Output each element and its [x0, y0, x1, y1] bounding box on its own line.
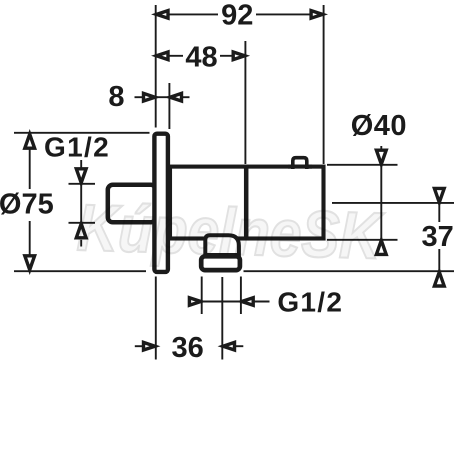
flange bottom reference line right (37 bottom): [244, 270, 454, 272]
inlet tick bottom: [69, 222, 96, 224]
arrow 36 left (pointing right at flange face line): [144, 342, 156, 350]
svg-text:37: 37: [421, 221, 453, 253]
dimension 48 line: [157, 55, 183, 57]
inlet pipe (wall connection): [108, 185, 156, 223]
inlet G1/2 dimension: up arrow: [76, 224, 86, 238]
Ø40 top extension line: [327, 164, 398, 166]
extension line right of 8 (x=169.4): [168, 83, 170, 129]
arrow 8 right (outside pointing left): [170, 93, 182, 101]
svg-text:Ø75: Ø75: [0, 189, 54, 221]
extension below: outlet right (G1/2): [240, 277, 242, 315]
inlet G1/2 dimension: down arrow: [80, 160, 82, 168]
Ø40 dimension line: [380, 146, 382, 256]
extension line for 92 right (x=323.6): [323, 5, 325, 164]
Ø75 dimension line: [29, 134, 31, 189]
axis reference line (37 top): [332, 202, 454, 204]
redraw body top line over tab bottom: [288, 165, 312, 169]
37 dimension line upper: [438, 203, 440, 222]
svg-text:48: 48: [185, 41, 217, 73]
svg-text:36: 36: [171, 332, 203, 364]
extension below: flange face (36 left): [155, 277, 157, 360]
dimension 92 line: [157, 13, 218, 15]
svg-text:92: 92: [221, 0, 253, 32]
svg-text:G1/2: G1/2: [44, 131, 110, 162]
arrow 48 left: [157, 52, 169, 60]
arrow 92 left: [157, 11, 169, 19]
flange top reference line (Ø75 top): [14, 132, 150, 134]
bottom G1/2 dimension line: [202, 301, 241, 303]
37 dimension arrow up: [434, 272, 444, 286]
36 dimension: [135, 345, 144, 347]
outlet dome (hand shower holder cone): [205, 235, 239, 255]
body rectangle (valve body side view): [170, 167, 324, 239]
wall flange (escutcheon, side view): [154, 134, 168, 272]
dimension 8 line: [154, 96, 171, 98]
division line between body sections: [244, 165, 249, 241]
svg-text:Ø40: Ø40: [351, 110, 407, 142]
extension line left (x=155.7 top): [155, 5, 157, 128]
outlet cap (nut): [201, 256, 240, 270]
37 dimension arrow down: [434, 188, 444, 202]
arrow Ø40 up (to bottom line): [376, 240, 386, 254]
arrow 48 right: [233, 52, 245, 60]
inlet dim mid line: [80, 184, 82, 223]
arrow Ø75 down: [25, 256, 35, 270]
extension below: outlet left (G1/2): [201, 277, 203, 315]
arrow 92 right: [311, 11, 323, 19]
arrow 36 right (pointing left at centerline): [223, 342, 235, 350]
inlet tick top: [69, 183, 96, 185]
arrow Ø40 down (to top line): [376, 150, 386, 164]
flange bottom reference line left (Ø75 bottom): [14, 270, 146, 272]
watermark KúpelneSK: [76, 191, 386, 273]
svg-text:G1/2: G1/2: [277, 287, 343, 318]
arrow 8 left (outside pointing right): [144, 93, 156, 101]
tab (button) on top of body: [293, 158, 307, 169]
arrow G1/2 left (pointing right): [189, 298, 201, 306]
extension below: outlet centerline (36 right): [221, 277, 223, 360]
extension line for 48 (x=245.4): [244, 41, 246, 164]
Ø40 bottom extension line: [327, 239, 398, 241]
svg-text:KúpelneSK: KúpelneSK: [76, 191, 386, 273]
arrow G1/2 right (pointing left): [242, 298, 254, 306]
arrow Ø75 up: [25, 134, 35, 148]
37 dimension line lower: [438, 249, 440, 271]
svg-text:8: 8: [108, 81, 124, 113]
